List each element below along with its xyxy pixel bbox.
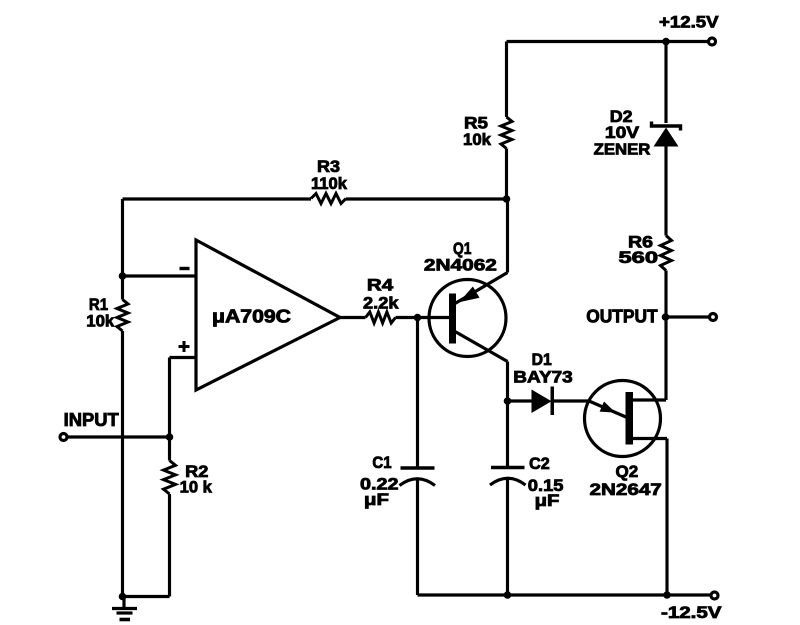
- svg-text:C1: C1: [372, 453, 391, 472]
- svg-text:C2: C2: [529, 454, 550, 473]
- svg-text:10 k: 10 k: [180, 478, 213, 497]
- svg-text:2.2k: 2.2k: [363, 294, 399, 313]
- svg-text:ZENER: ZENER: [594, 141, 651, 158]
- svg-text:2N4062: 2N4062: [424, 256, 497, 275]
- svg-text:+12.5V: +12.5V: [659, 13, 719, 32]
- svg-text:2N2647: 2N2647: [590, 480, 662, 499]
- svg-text:10k: 10k: [86, 312, 115, 331]
- svg-text:BAY73: BAY73: [513, 367, 573, 386]
- svg-text:560: 560: [619, 248, 659, 267]
- svg-text:110k: 110k: [311, 174, 348, 193]
- svg-text:10V: 10V: [605, 123, 640, 142]
- svg-text:μF: μF: [535, 491, 560, 510]
- svg-text:D1: D1: [532, 350, 552, 369]
- svg-text:INPUT: INPUT: [64, 410, 119, 430]
- svg-text:μA709C: μA709C: [212, 307, 291, 327]
- svg-text:R4: R4: [367, 276, 394, 295]
- svg-text:μF: μF: [364, 490, 389, 509]
- svg-text:OUTPUT: OUTPUT: [586, 307, 658, 327]
- svg-text:-12.5V: -12.5V: [661, 603, 722, 622]
- svg-text:10k: 10k: [463, 130, 492, 149]
- svg-text:Q2: Q2: [616, 462, 639, 481]
